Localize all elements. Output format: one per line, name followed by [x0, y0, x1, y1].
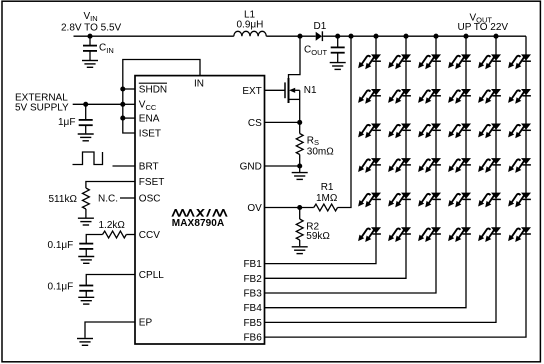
svg-text:EXT: EXT: [242, 86, 261, 97]
resistor RS: [296, 122, 334, 166]
LED D21: [388, 54, 411, 69]
LED D66: [508, 227, 531, 242]
wire R1 to VOUT riser: [338, 36, 351, 207]
junction VIN/CIN: [87, 34, 92, 39]
wire GND: [265, 165, 300, 167]
capacitor COUT: [304, 36, 345, 62]
wire IN routing from bus to IN pin: [123, 60, 200, 90]
svg-text:MAX8790A: MAX8790A: [172, 218, 225, 229]
capacitor 0.1uF CCV: [48, 240, 94, 256]
inductor L1: [234, 10, 266, 37]
wire OV: [265, 207, 314, 209]
svg-text:SHDN: SHDN: [139, 85, 167, 96]
LED D42: [448, 89, 471, 104]
ground COUT: [330, 63, 346, 70]
ground CPLL cap: [78, 297, 94, 304]
wire LED column 5 to FB5: [265, 36, 497, 322]
LED D12: [358, 89, 381, 104]
LED D14: [358, 158, 381, 173]
LED D55: [478, 193, 501, 208]
ground EP: [77, 339, 93, 346]
LED D32: [418, 89, 441, 104]
LED D56: [478, 227, 501, 242]
svg-text:511kΩ: 511kΩ: [49, 194, 78, 205]
wire D1 to VOUT corner: [323, 35, 526, 37]
ground CCV cap: [78, 257, 94, 264]
junction LED col3: [433, 34, 438, 39]
svg-text:ISET: ISET: [139, 129, 161, 140]
logo MAXIM: [171, 209, 227, 229]
LED D31: [418, 54, 441, 69]
svg-text:0.9μH: 0.9μH: [237, 19, 264, 30]
LED D65: [508, 193, 531, 208]
svg-text:GND: GND: [240, 162, 262, 173]
wire FSET to R 511k: [86, 182, 135, 189]
LED D11: [358, 54, 381, 69]
junction drain node: [297, 34, 302, 39]
LED D44: [448, 158, 471, 173]
wire CPLL to cap: [86, 275, 135, 285]
junction LED col5: [493, 34, 498, 39]
junction COUT: [335, 34, 340, 39]
LED D16: [358, 227, 381, 242]
wire LED column 2 to FB2: [265, 36, 407, 278]
pin ENA stub: [123, 117, 135, 119]
ground GND pin: [299, 166, 301, 172]
transistor N1: [285, 36, 317, 122]
ground CIN: [82, 61, 98, 68]
svg-text:UP TO 22V: UP TO 22V: [458, 22, 509, 33]
junction LED col2: [403, 34, 408, 39]
resistor R1: [314, 182, 338, 211]
pin SHDN stub: [123, 88, 135, 90]
LED D26: [388, 227, 411, 242]
svg-text:FB5: FB5: [243, 318, 262, 329]
svg-text:FSET: FSET: [139, 177, 165, 188]
resistor 511k: [49, 188, 90, 218]
svg-text:CCV: CCV: [139, 230, 160, 241]
svg-text:ENA: ENA: [139, 114, 160, 125]
wire CS: [265, 121, 300, 123]
resistor R2: [296, 208, 330, 247]
ground R2: [292, 247, 308, 254]
wire EP to ground: [85, 322, 135, 338]
junction LED col1: [373, 34, 378, 39]
wire CCV: [126, 234, 135, 236]
svg-text:FB1: FB1: [243, 259, 262, 270]
junction bus ENA: [120, 116, 125, 121]
node N.C.: [98, 194, 135, 205]
junction GND: [297, 163, 302, 168]
node VOUT label: [458, 12, 509, 33]
wire 5V supply to VCC: [73, 103, 123, 105]
LED D34: [418, 158, 441, 173]
LED D64: [508, 158, 531, 173]
svg-text:OSC: OSC: [139, 194, 161, 205]
svg-text:N1: N1: [304, 85, 317, 96]
LED D46: [448, 227, 471, 242]
LED D51: [478, 54, 501, 69]
LED D33: [418, 123, 441, 138]
svg-text:FB3: FB3: [243, 289, 262, 300]
junction bus SHDN: [120, 86, 125, 91]
pin label SHDN with overline: [139, 83, 167, 95]
svg-text:R1: R1: [321, 182, 334, 193]
junction R1 riser: [348, 34, 353, 39]
BRT square wave symbol: [73, 152, 103, 165]
wire left bus SHDN-ISET: [123, 89, 135, 133]
wire LED column 1 to FB1: [265, 36, 377, 263]
junction LED col4: [463, 34, 468, 39]
svg-text:FB4: FB4: [243, 303, 262, 314]
wire BRT: [113, 165, 136, 167]
svg-text:5V SUPPLY: 5V SUPPLY: [15, 102, 69, 113]
junction CS/RS: [297, 120, 302, 125]
wire 1.2k to cap: [86, 235, 102, 244]
svg-text:N.C.: N.C.: [98, 194, 118, 205]
node EXTERNAL 5V SUPPLY: [15, 93, 69, 114]
capacitor CIN: [83, 36, 114, 60]
svg-text:0.1μF: 0.1μF: [48, 240, 74, 251]
LED D22: [388, 89, 411, 104]
node VIN label: [61, 11, 122, 34]
svg-text:FB6: FB6: [243, 333, 262, 344]
svg-text:OV: OV: [247, 203, 262, 214]
LED D54: [478, 158, 501, 173]
svg-text:59kΩ: 59kΩ: [306, 231, 330, 242]
capacitor 0.1uF CPLL: [48, 282, 94, 297]
LED D63: [508, 123, 531, 138]
diode D1: [314, 21, 327, 41]
svg-text:1.2kΩ: 1.2kΩ: [99, 220, 126, 231]
LED D43: [448, 123, 471, 138]
LED D15: [358, 193, 381, 208]
svg-text:EP: EP: [139, 318, 153, 329]
LED D45: [448, 193, 471, 208]
junction 1uF tap: [83, 102, 88, 107]
LED D35: [418, 193, 441, 208]
wire top rail VIN to L1: [74, 35, 234, 37]
IC U1 MAX8790A box: [135, 76, 265, 344]
svg-text:D1: D1: [314, 21, 327, 32]
wire LED column 4 to FB4: [265, 36, 467, 308]
LED D62: [508, 89, 531, 104]
LED D52: [478, 89, 501, 104]
LED D61: [508, 54, 531, 69]
svg-text:1μF: 1μF: [58, 117, 75, 128]
wire LED column 6 to FB6: [265, 36, 527, 337]
svg-text:30mΩ: 30mΩ: [307, 147, 334, 158]
pin VCC stub: [123, 103, 135, 105]
svg-text:0.1μF: 0.1μF: [48, 282, 74, 293]
LED D53: [478, 123, 501, 138]
wire L1 to D1: [266, 35, 315, 37]
wire LED column 3 to FB3: [265, 36, 437, 293]
resistor 1.2k: [99, 220, 127, 238]
ground 1uF: [78, 134, 94, 141]
wire EXT to gate: [265, 89, 286, 91]
svg-text:2.8V TO 5.5V: 2.8V TO 5.5V: [61, 23, 122, 34]
LED D36: [418, 227, 441, 242]
LED D24: [388, 158, 411, 173]
svg-text:IN: IN: [194, 78, 204, 89]
ground 511k: [78, 218, 94, 225]
LED D13: [358, 123, 381, 138]
junction OV: [297, 205, 302, 210]
LED D25: [388, 193, 411, 208]
svg-text:BRT: BRT: [139, 162, 159, 173]
svg-text:CS: CS: [248, 118, 262, 129]
LED D23: [388, 123, 411, 138]
junction bus VCC: [120, 102, 125, 107]
LED D41: [448, 54, 471, 69]
svg-text:CPLL: CPLL: [139, 270, 164, 281]
svg-text:1MΩ: 1MΩ: [316, 193, 338, 204]
svg-text:FB2: FB2: [243, 274, 262, 285]
capacitor 1uF: [58, 104, 93, 133]
